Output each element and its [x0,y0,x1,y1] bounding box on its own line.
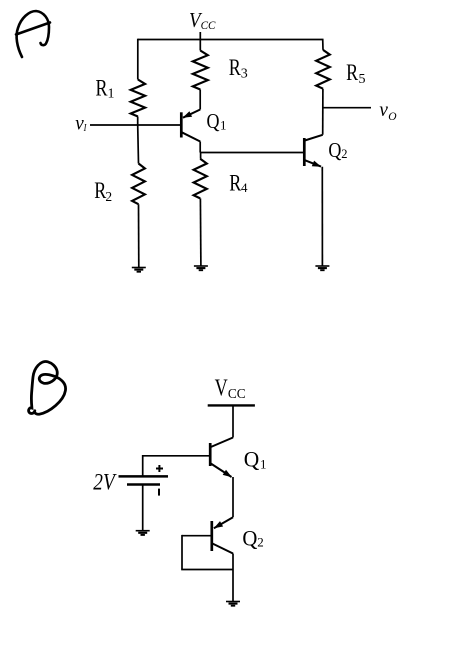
handwritten circuit label B [29,362,66,415]
resistor R4 [194,159,207,199]
wire VCC stub [199,32,201,40]
svg-text:R: R [96,76,109,101]
wire R5 top lead [322,39,324,50]
wire Q1 base to battery [143,455,211,457]
transistor Q1 (PNP) [181,110,200,142]
handwritten circuit label A [16,11,50,57]
wire feedback loop bottom [181,569,233,571]
svg-text:5: 5 [359,72,366,87]
ground (below Q2, circuit B) [226,601,240,603]
wire R4 bottom lead [199,198,202,266]
ground (below Q2 emitter) [315,265,329,267]
svg-text:v: v [379,99,388,121]
wire Q1 collector lead [199,142,201,153]
transistor Q2 (PNP, circuit B) [212,517,233,553]
svg-text:Q: Q [207,109,220,133]
svg-text:Q: Q [328,138,341,162]
svg-text:Q: Q [242,525,257,550]
svg-text:2: 2 [105,189,112,204]
wire R1 bottom lead [137,117,139,126]
ground (below R2) [132,267,146,269]
wire R3 bottom lead [199,90,201,110]
resistor R3 [193,51,208,90]
wire R4 top lead [200,153,202,159]
svg-text:R: R [229,55,242,80]
wire R3 top lead [199,40,201,51]
wire Q2 collector to ground [232,554,234,602]
wire Q2 emitter lead [321,167,323,266]
transistor Q2 (NPN) [304,135,322,167]
svg-text:1: 1 [260,457,267,472]
wire battery top lead [142,455,144,476]
ground (below R4) [194,265,208,267]
svg-text:V: V [215,375,229,401]
svg-text:CC: CC [228,387,246,402]
resistor R1 [131,80,145,117]
wire collector node to Q2 base [200,152,304,154]
svg-text:R: R [229,170,242,195]
svg-text:2: 2 [257,534,264,549]
wire feedback loop left side [181,535,183,570]
wire R2 bottom lead [138,204,140,267]
wire Q1 emitter to Q2 emitter [232,477,234,517]
resistor R2 [132,164,145,205]
svg-text:4: 4 [241,180,248,195]
wire R1 top lead [137,39,139,80]
wire vI node to R2 [137,125,140,164]
svg-text:Q: Q [244,446,260,471]
wire Q2 base feedback loop [182,535,212,537]
svg-text:I: I [83,123,87,134]
svg-text:O: O [388,111,397,123]
wire VCC to Q1 collector [232,405,234,437]
wire VCC bar [208,404,255,406]
node vI input wire [90,124,181,126]
svg-text:2V: 2V [93,470,117,495]
transistor Q1 (NPN, circuit B) [210,438,233,478]
node vO output wire [323,107,371,109]
svg-text:1: 1 [108,87,115,102]
wire R5 to Q2 collector [322,89,324,135]
svg-text:3: 3 [241,67,248,82]
svg-text:1: 1 [220,118,227,133]
wire top supply rail [138,39,323,41]
wire battery bottom lead [142,485,144,531]
svg-text:R: R [346,60,359,85]
resistor R5 [316,50,330,89]
battery 2V [119,465,169,496]
svg-text:CC: CC [201,20,216,32]
svg-text:2: 2 [341,147,347,161]
ground (below battery) [136,530,150,532]
